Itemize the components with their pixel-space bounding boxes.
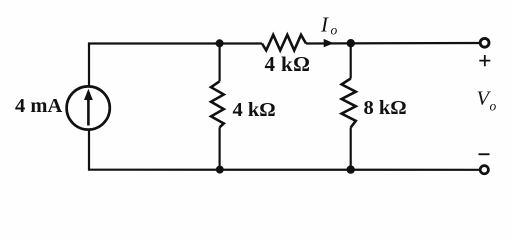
current source arrow (up) <box>87 99 90 126</box>
svg-text:I: I <box>320 12 329 36</box>
wire middle branch lower stub <box>219 127 221 169</box>
wire top-right segment after resistor to terminal <box>306 42 480 45</box>
svg-text:4 kΩ: 4 kΩ <box>233 99 276 121</box>
svg-text:o: o <box>331 23 338 38</box>
wire right branch lower stub <box>350 128 352 170</box>
current arrow Io on wire <box>324 39 334 47</box>
wire top-left horizontal segment (with left riser corner) <box>89 44 262 87</box>
resistor R3 8 kOhm vertical <box>342 79 356 128</box>
output terminal top (open circle) <box>480 38 489 47</box>
wire bottom horizontal (with left riser corner) <box>89 130 480 170</box>
wire middle branch upper stub <box>219 44 221 82</box>
resistor R1 4 kOhm horizontal <box>262 35 306 51</box>
resistor R2 4 kOhm vertical middle <box>211 81 224 127</box>
node junction dot bottom-middle <box>216 166 224 174</box>
svg-text:8 kΩ: 8 kΩ <box>364 97 407 119</box>
plus sign <box>479 55 490 66</box>
svg-text:4 kΩ: 4 kΩ <box>265 52 311 76</box>
output terminal bottom (open circle) <box>480 166 488 174</box>
svg-text:4 mA: 4 mA <box>15 95 62 117</box>
current source I1 4 mA circle <box>67 86 110 129</box>
wire right branch upper stub <box>350 44 352 79</box>
svg-text:o: o <box>490 98 497 113</box>
node junction dot top-right <box>347 39 355 47</box>
node junction dot bottom-right <box>347 165 355 173</box>
minus sign <box>479 153 490 155</box>
node junction dot top-middle <box>216 39 224 47</box>
